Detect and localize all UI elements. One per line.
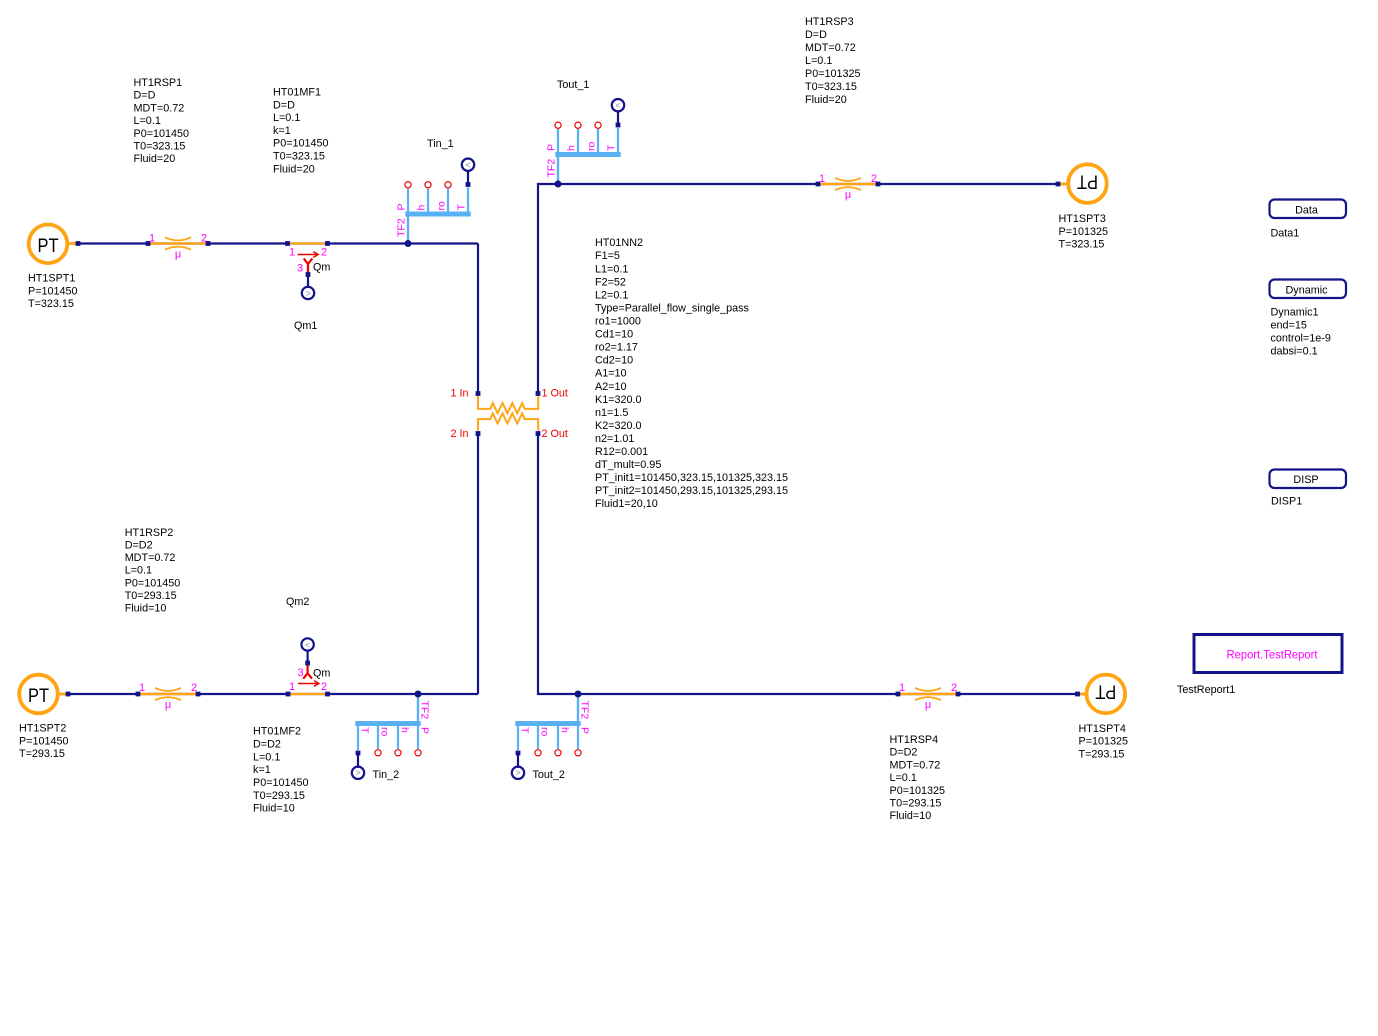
svg-text:μ: μ: [845, 189, 851, 201]
svg-text:Cd1=10: Cd1=10: [595, 329, 633, 341]
svg-text:HT1SPT3: HT1SPT3: [1059, 213, 1106, 225]
svg-text:3: 3: [297, 667, 303, 679]
svg-text:D=D: D=D: [805, 29, 827, 41]
svg-text:Dynamic: Dynamic: [1286, 285, 1329, 297]
svg-text:HT1SPT2: HT1SPT2: [19, 723, 66, 735]
svg-text:PT_init2=101450,293.15,101325,: PT_init2=101450,293.15,101325,293.15: [595, 485, 788, 497]
svg-text:Fluid=10: Fluid=10: [125, 603, 167, 615]
svg-text:Qm2: Qm2: [286, 596, 309, 608]
svg-text:T0=293.15: T0=293.15: [125, 590, 177, 602]
svg-text:HT01MF2: HT01MF2: [253, 726, 301, 738]
svg-text:n1=1.5: n1=1.5: [595, 407, 628, 419]
svg-text:PT_init1=101450,323.15,101325,: PT_init1=101450,323.15,101325,323.15: [595, 472, 788, 484]
svg-text:1 In: 1 In: [450, 388, 468, 400]
svg-text:Tin_1: Tin_1: [427, 138, 454, 150]
svg-text:D=D2: D=D2: [890, 747, 918, 759]
svg-text:MDT=0.72: MDT=0.72: [125, 552, 176, 564]
svg-text:MDT=0.72: MDT=0.72: [134, 102, 185, 114]
svg-text:L=0.1: L=0.1: [273, 112, 300, 124]
svg-text:P0=101325: P0=101325: [890, 785, 946, 797]
svg-text:T=293.15: T=293.15: [1079, 748, 1125, 760]
svg-text:A1=10: A1=10: [595, 368, 627, 380]
svg-text:TestReport1: TestReport1: [1177, 684, 1235, 696]
svg-text:P0=101450: P0=101450: [125, 577, 181, 589]
svg-text:L=0.1: L=0.1: [805, 55, 832, 67]
svg-text:Qm: Qm: [313, 262, 330, 274]
svg-text:HT1SPT1: HT1SPT1: [28, 273, 75, 285]
svg-text:T0=293.15: T0=293.15: [890, 798, 942, 810]
svg-text:F2=52: F2=52: [595, 276, 626, 288]
svg-text:Fluid=10: Fluid=10: [253, 803, 295, 815]
svg-text:K1=320.0: K1=320.0: [595, 394, 642, 406]
svg-text:D=D: D=D: [273, 99, 295, 111]
svg-text:P0=101325: P0=101325: [805, 68, 861, 80]
svg-text:HT01MF1: HT01MF1: [273, 87, 321, 99]
svg-text:<: <: [305, 640, 310, 650]
svg-text:MDT=0.72: MDT=0.72: [805, 42, 856, 54]
svg-text:HT1RSP2: HT1RSP2: [125, 527, 174, 539]
svg-text:PT: PT: [1077, 170, 1098, 192]
svg-text:PT: PT: [28, 685, 49, 707]
svg-text:3: 3: [297, 263, 303, 275]
svg-text:T0=323.15: T0=323.15: [805, 81, 857, 93]
svg-text:Type=Parallel_flow_single_pass: Type=Parallel_flow_single_pass: [595, 302, 750, 314]
svg-text:D=D2: D=D2: [253, 739, 281, 751]
svg-text:Tout_1: Tout_1: [557, 79, 589, 91]
svg-text:A2=10: A2=10: [595, 381, 627, 393]
svg-text:HT01NN2: HT01NN2: [595, 237, 643, 249]
svg-text:Data: Data: [1295, 205, 1318, 217]
svg-text:DISP: DISP: [1293, 474, 1318, 486]
svg-text:Qm: Qm: [313, 668, 330, 680]
svg-text:HT1RSP1: HT1RSP1: [134, 77, 183, 89]
svg-text:L=0.1: L=0.1: [890, 772, 917, 784]
svg-text:Fluid=20: Fluid=20: [273, 163, 315, 175]
svg-text:k=1: k=1: [253, 764, 271, 776]
svg-text:μ: μ: [165, 699, 171, 711]
svg-text:2 In: 2 In: [450, 428, 468, 440]
svg-text:L=0.1: L=0.1: [253, 751, 280, 763]
svg-text:dabsi=0.1: dabsi=0.1: [1271, 346, 1318, 358]
svg-text:Fluid=10: Fluid=10: [890, 810, 932, 822]
svg-text:Cd2=10: Cd2=10: [595, 355, 633, 367]
svg-text:HT1SPT4: HT1SPT4: [1079, 723, 1126, 735]
svg-text:ro1=1000: ro1=1000: [595, 316, 641, 328]
svg-text:T0=323.15: T0=323.15: [134, 141, 186, 153]
svg-text:MDT=0.72: MDT=0.72: [890, 759, 941, 771]
svg-text:T0=293.15: T0=293.15: [253, 790, 305, 802]
svg-text:Fluid=20: Fluid=20: [805, 94, 847, 106]
svg-text:L2=0.1: L2=0.1: [595, 289, 628, 301]
svg-text:D=D: D=D: [134, 90, 156, 102]
svg-text:L1=0.1: L1=0.1: [595, 263, 628, 275]
svg-text:Fluid=20: Fluid=20: [134, 153, 176, 165]
svg-text:L=0.1: L=0.1: [134, 115, 161, 127]
svg-text:Data1: Data1: [1271, 227, 1300, 239]
svg-text:Tin_2: Tin_2: [373, 769, 400, 781]
svg-text:μ: μ: [175, 249, 181, 261]
svg-text:P=101450: P=101450: [19, 735, 69, 747]
svg-text:D=D2: D=D2: [125, 540, 153, 552]
svg-text:end=15: end=15: [1271, 320, 1307, 332]
svg-text:R12=0.001: R12=0.001: [595, 446, 648, 458]
svg-text:Report.TestReport: Report.TestReport: [1227, 648, 1319, 662]
svg-text:HT1RSP4: HT1RSP4: [890, 734, 939, 746]
svg-text:k=1: k=1: [273, 125, 291, 137]
svg-text:Tout_2: Tout_2: [533, 769, 565, 781]
svg-text:T=293.15: T=293.15: [19, 748, 65, 760]
svg-text:P=101325: P=101325: [1079, 736, 1129, 748]
svg-text:P0=101450: P0=101450: [273, 138, 329, 150]
svg-text:P=101325: P=101325: [1059, 226, 1109, 238]
svg-text:F1=5: F1=5: [595, 250, 620, 262]
svg-text:T0=323.15: T0=323.15: [273, 151, 325, 163]
svg-text:HT1RSP3: HT1RSP3: [805, 16, 854, 28]
svg-text:T=323.15: T=323.15: [1059, 239, 1105, 251]
svg-text:control=1e-9: control=1e-9: [1271, 333, 1331, 345]
svg-text:Qm1: Qm1: [294, 320, 317, 332]
svg-text:P=101450: P=101450: [28, 285, 78, 297]
svg-text:ro2=1.17: ro2=1.17: [595, 342, 638, 354]
svg-text:2: 2: [321, 681, 327, 693]
svg-text:Dynamic1: Dynamic1: [1271, 307, 1319, 319]
svg-text:1 Out: 1 Out: [542, 388, 568, 400]
svg-text:n2=1.01: n2=1.01: [595, 433, 634, 445]
svg-text:PT: PT: [38, 235, 59, 257]
svg-text:DISP1: DISP1: [1271, 496, 1302, 508]
svg-text:μ: μ: [925, 699, 931, 711]
svg-text:1: 1: [289, 681, 295, 693]
svg-text:P0=101450: P0=101450: [253, 777, 309, 789]
svg-text:Fluid1=20,10: Fluid1=20,10: [595, 498, 658, 510]
svg-text:2: 2: [321, 247, 327, 259]
svg-text:T=323.15: T=323.15: [28, 298, 74, 310]
svg-text:>: >: [305, 288, 310, 298]
svg-text:PT: PT: [1095, 681, 1116, 703]
svg-text:1: 1: [289, 247, 295, 259]
svg-text:L=0.1: L=0.1: [125, 565, 152, 577]
svg-text:K2=320.0: K2=320.0: [595, 420, 642, 432]
svg-text:2 Out: 2 Out: [542, 428, 568, 440]
svg-text:P0=101450: P0=101450: [134, 128, 190, 140]
svg-text:dT_mult=0.95: dT_mult=0.95: [595, 459, 661, 471]
